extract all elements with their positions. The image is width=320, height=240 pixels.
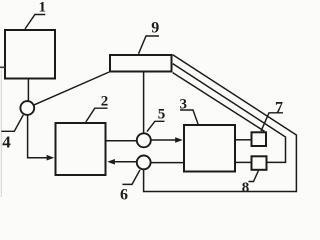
label 4	[1, 115, 23, 152]
label 3	[180, 97, 198, 125]
label 5	[147, 107, 165, 132]
block 9 (box)	[110, 55, 172, 72]
wire circle6 to box2 with arrow (points left into box2)	[107, 159, 137, 165]
circle 6	[137, 156, 151, 170]
label 7	[261, 100, 283, 132]
block 1 (box)	[5, 30, 55, 79]
svg-text:6: 6	[120, 187, 128, 201]
svg-text:7: 7	[275, 100, 283, 117]
scan artifact tick at left edge near y=67	[0, 66, 5, 68]
rail bottom: box9 right corner to box7 top	[173, 73, 265, 132]
circle 4	[20, 101, 34, 115]
block 8 (small box)	[252, 156, 267, 170]
label 9	[139, 20, 160, 54]
block 2 (box)	[56, 123, 106, 175]
circle 5	[137, 133, 151, 147]
block 3 (box)	[184, 125, 235, 172]
rail middle: box9 right to box8 right edge	[173, 64, 286, 163]
wire circle4 down then right with arrow into box 2	[28, 115, 55, 161]
wire circle5 to box3 with arrow	[151, 137, 183, 143]
wire box1 to circle4	[27, 80, 29, 101]
scan artifact faint vertical smear at far left	[0, 70, 2, 197]
svg-text:5: 5	[158, 107, 166, 123]
svg-text:1: 1	[39, 0, 47, 16]
label 1	[25, 0, 46, 29]
svg-text:9: 9	[151, 20, 159, 37]
wire box3 to box8	[236, 161, 251, 163]
label 2	[86, 94, 108, 123]
label 6	[120, 170, 140, 204]
block 7 (small box)	[252, 132, 267, 146]
svg-text:8: 8	[242, 180, 250, 196]
wire box3 to box7	[236, 139, 251, 141]
svg-text:2: 2	[101, 94, 109, 110]
rail top: box9 right to far right, down, along bottom, up to circle6	[144, 55, 297, 192]
svg-text:4: 4	[2, 133, 11, 152]
wire circle4 to box9 (diagonal)	[34, 72, 110, 105]
label 8	[242, 171, 259, 197]
wire box2 to circle5	[107, 140, 137, 142]
wire circle6 to box3	[151, 162, 183, 164]
wire box9 down to circle5	[143, 73, 145, 134]
